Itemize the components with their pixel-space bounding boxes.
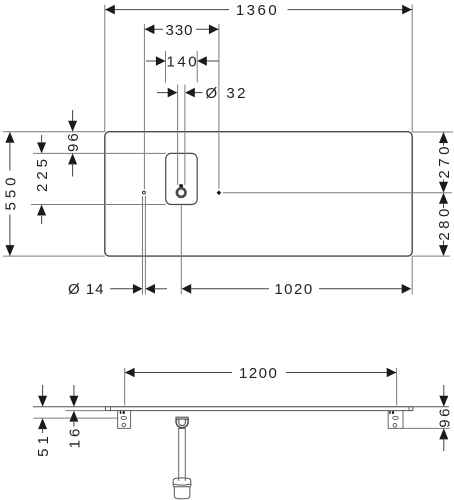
svg-text:140: 140 [167, 53, 200, 70]
svg-text:Ø 32: Ø 32 [206, 85, 249, 102]
trap cup flange [173, 478, 192, 487]
trap pipe [179, 429, 186, 481]
dimension 550 [3, 132, 20, 256]
dimension 1200 [125, 365, 397, 406]
dimension 1360 [105, 2, 412, 132]
bracket right [388, 411, 403, 429]
node diamond [217, 190, 222, 195]
extension line console top left [3, 131, 105, 133]
svg-text:96: 96 [65, 131, 82, 152]
svg-text:Ø 14: Ø 14 [68, 281, 105, 298]
dimension 16 [67, 385, 84, 448]
dimension D32 [157, 85, 248, 102]
svg-text:270: 270 [436, 143, 453, 179]
svg-text:550: 550 [3, 173, 20, 210]
dimension 51 [35, 385, 52, 457]
extension line drain center [180, 206, 182, 295]
svg-text:1200: 1200 [239, 365, 278, 382]
trap cup body [174, 487, 190, 499]
extension line console bottom left [3, 255, 105, 257]
extension line slab bottom left [66, 410, 106, 412]
dimension 96 top view [65, 110, 82, 177]
faucet slot lines [178, 85, 185, 185]
trap pipe lower end [179, 478, 186, 481]
dimension D14 [68, 281, 167, 298]
console slab front view [105, 407, 412, 411]
svg-text:96: 96 [436, 406, 453, 428]
svg-text:280: 280 [436, 205, 453, 241]
dimension 280 [436, 193, 453, 256]
trap top fitting [176, 417, 188, 428]
dimension 330 [144, 22, 219, 190]
drain ring [177, 188, 186, 197]
wall top surface line [33, 406, 449, 408]
extension lines hole D14 [143, 196, 146, 295]
hole D14 [143, 191, 146, 194]
console top view outline [105, 132, 412, 256]
svg-text:225: 225 [34, 155, 51, 192]
svg-text:1360: 1360 [236, 2, 279, 19]
svg-text:51: 51 [35, 432, 52, 457]
svg-text:16: 16 [67, 426, 84, 449]
extension line console bottom right [412, 255, 450, 257]
extension line screw slot left [34, 417, 122, 419]
basin cutout [166, 153, 198, 204]
dimension 1020 [182, 281, 412, 298]
extension line console right lower [411, 256, 413, 294]
extension line bracket bottom right [403, 427, 450, 429]
dimension 270 [436, 132, 453, 193]
bracket left [118, 411, 131, 429]
dimension 225 [34, 135, 51, 224]
dimension 140 [146, 51, 219, 83]
extension line basin top left [33, 152, 166, 154]
extension line basin bottom left [31, 204, 166, 206]
slot cap [179, 184, 183, 187]
dimension 96 bottom view [436, 385, 453, 451]
drain centerline right [223, 192, 452, 194]
extension line console top right [412, 131, 453, 133]
svg-text:330: 330 [165, 22, 193, 39]
svg-text:1020: 1020 [274, 281, 313, 298]
